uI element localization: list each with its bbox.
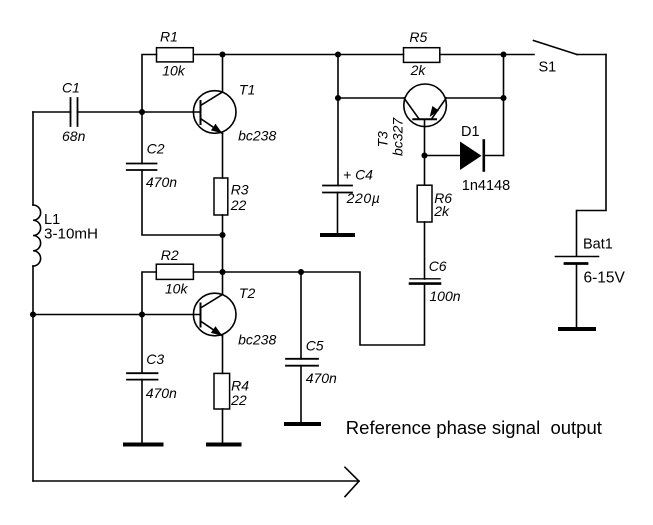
- resistor R6: [417, 185, 432, 222]
- inductor L1: [33, 205, 41, 266]
- capacitor C4 plates: [323, 185, 352, 187]
- resistor R5: [404, 48, 440, 63]
- transistor T2 base bar: [200, 304, 202, 327]
- svg-text:C2: C2: [147, 141, 165, 157]
- wire node E to node F: [222, 235, 224, 272]
- svg-text:3-10mH: 3-10mH: [44, 226, 98, 243]
- switch S1 arm: [534, 41, 578, 55]
- ground under C5: [286, 422, 319, 426]
- svg-text:R3: R3: [231, 182, 249, 198]
- capacitor C5 plates: [286, 358, 318, 360]
- svg-text:C3: C3: [146, 351, 164, 367]
- transistor T2 emitter arrow: [211, 326, 222, 336]
- svg-text:bc238: bc238: [238, 331, 276, 347]
- capacitor C1 plates: [70, 98, 72, 126]
- transistor T1 base bar: [200, 101, 202, 124]
- transistor T1 emitter diagonal: [201, 119, 223, 134]
- wire top rail node K to R5: [338, 54, 404, 56]
- wire C6 bottom jog to node G: [301, 272, 425, 345]
- svg-text:T3: T3: [375, 131, 391, 148]
- ground under R4: [208, 443, 240, 447]
- wire T3 base lead down to node L and R6: [424, 119, 426, 185]
- wire C5 bottom lead: [300, 366, 302, 424]
- svg-text:1n4148: 1n4148: [462, 178, 510, 194]
- svg-text:bc327: bc327: [390, 117, 406, 156]
- svg-text:470n: 470n: [146, 385, 177, 401]
- wire node F down to T2 collector: [222, 272, 224, 295]
- transistor T2 emitter diagonal: [201, 321, 223, 336]
- svg-text:22: 22: [230, 392, 247, 408]
- svg-text:6-15V: 6-15V: [584, 269, 626, 286]
- node D: [30, 311, 36, 317]
- node B: [500, 51, 506, 57]
- transistor T2 circle: [193, 293, 236, 336]
- svg-text:C1: C1: [62, 80, 80, 96]
- capacitor C3 plates: [127, 372, 158, 374]
- wire R6 bottom to C6: [424, 222, 426, 279]
- diode D1 triangle: [460, 142, 482, 171]
- svg-text:+ C4: + C4: [343, 167, 373, 183]
- wire right vertical to battery: [577, 55, 607, 257]
- wire R1 right to node A: [193, 54, 222, 56]
- svg-text:2k: 2k: [433, 203, 450, 219]
- wire R5 right to node B: [440, 54, 504, 56]
- wire D1 cathode to vertical: [485, 155, 504, 157]
- transistor T3 right diagonal (emitter): [431, 98, 446, 119]
- wire C5 top lead from node G: [300, 272, 302, 359]
- node A: [219, 51, 225, 57]
- svg-text:T1: T1: [239, 82, 255, 98]
- wire C3 top lead: [141, 315, 143, 374]
- wire R3 bottom to node E: [222, 215, 224, 235]
- transistor T2 collector diagonal: [201, 295, 223, 309]
- svg-text:C5: C5: [306, 337, 324, 353]
- wire vertical x338 from node K to C4: [337, 55, 339, 186]
- svg-text:R5: R5: [409, 29, 427, 45]
- svg-text:S1: S1: [539, 59, 557, 75]
- wire T1 emitter lead: [222, 134, 224, 179]
- node L: [421, 152, 427, 158]
- svg-text:R1: R1: [160, 28, 178, 44]
- wire node C to T1 base: [142, 111, 201, 113]
- label T3 (rotated): [375, 131, 391, 148]
- svg-text:22: 22: [230, 197, 247, 213]
- transistor T1 emitter arrow: [211, 124, 222, 134]
- transistor T3 emitter arrow: [430, 106, 439, 117]
- wire left vertical top: [32, 112, 34, 205]
- battery Bat1 plates: [556, 256, 599, 258]
- wire C3 bottom lead: [141, 380, 143, 445]
- capacitor C6 plates: [410, 278, 440, 280]
- wire T2 base from node D: [33, 314, 201, 316]
- ground under C4: [322, 233, 353, 237]
- wire C2 bottom lead to node E: [142, 170, 223, 235]
- svg-text:T2: T2: [239, 285, 256, 301]
- node I: [335, 95, 341, 101]
- resistor R4: [214, 373, 230, 409]
- wire bottom output line: [33, 480, 359, 482]
- diode D1 anode wire: [425, 155, 461, 157]
- svg-text:2k: 2k: [410, 62, 427, 78]
- wire C4 bottom lead: [337, 193, 339, 236]
- svg-text:470n: 470n: [306, 370, 337, 386]
- node G: [298, 269, 304, 275]
- node C: [139, 109, 145, 115]
- transistor T3 left diagonal: [404, 98, 419, 119]
- resistor R1: [157, 48, 194, 62]
- node K: [335, 51, 341, 57]
- svg-text:10k: 10k: [165, 281, 189, 297]
- wire R2 left lead: [142, 272, 156, 315]
- resistor R3: [214, 178, 228, 215]
- svg-text:100n: 100n: [429, 288, 460, 304]
- svg-text:bc238: bc238: [238, 127, 276, 143]
- transistor T3 circle: [404, 84, 447, 127]
- svg-text:D1: D1: [461, 124, 480, 140]
- wire C2 top lead: [141, 112, 143, 164]
- transistor T3 base bar: [413, 118, 436, 120]
- wire left vertical bottom: [32, 266, 34, 481]
- arrowhead output: [345, 467, 359, 496]
- svg-text:220µ: 220µ: [346, 190, 381, 206]
- ground under battery: [560, 327, 594, 331]
- svg-text:10k: 10k: [162, 62, 186, 78]
- wire vertical x503.5 node B to D1 cathode level: [503, 55, 505, 156]
- wire T1 collector lead: [222, 55, 224, 93]
- node E: [219, 232, 225, 238]
- transistor T1 collector diagonal: [201, 92, 223, 106]
- wire switch right contact: [577, 54, 606, 56]
- node F: [219, 269, 225, 275]
- ground under C3: [125, 443, 162, 447]
- wire C1 right lead to node C: [78, 111, 143, 113]
- wire node B to switch contact: [504, 54, 535, 56]
- transistor T1 circle: [193, 91, 236, 134]
- wire T3 right lead to node J: [446, 97, 503, 99]
- wire T3 left lead: [338, 97, 404, 99]
- diode D1 cathode bar: [482, 141, 485, 171]
- wire battery negative lead: [576, 265, 578, 330]
- node J: [500, 95, 506, 101]
- capacitor C2 plates: [127, 163, 157, 165]
- node H: [139, 311, 145, 317]
- svg-text:C6: C6: [429, 258, 447, 274]
- svg-text:Reference phase signal output: Reference phase signal output: [346, 417, 602, 438]
- wire R4 bottom lead: [222, 409, 224, 445]
- wire top rail node A to node K: [223, 54, 339, 56]
- wire R1 left lead: [142, 55, 157, 113]
- wire T2 emitter lead: [222, 336, 224, 373]
- wire R2 right lead through node F to node G: [193, 271, 301, 273]
- svg-text:470n: 470n: [146, 174, 177, 190]
- label bc327 (rotated): [390, 117, 406, 156]
- svg-text:Bat1: Bat1: [583, 237, 613, 253]
- svg-text:68n: 68n: [62, 128, 86, 144]
- resistor R2: [156, 264, 193, 279]
- wire C1 left lead: [33, 111, 71, 113]
- svg-text:R2: R2: [161, 247, 179, 263]
